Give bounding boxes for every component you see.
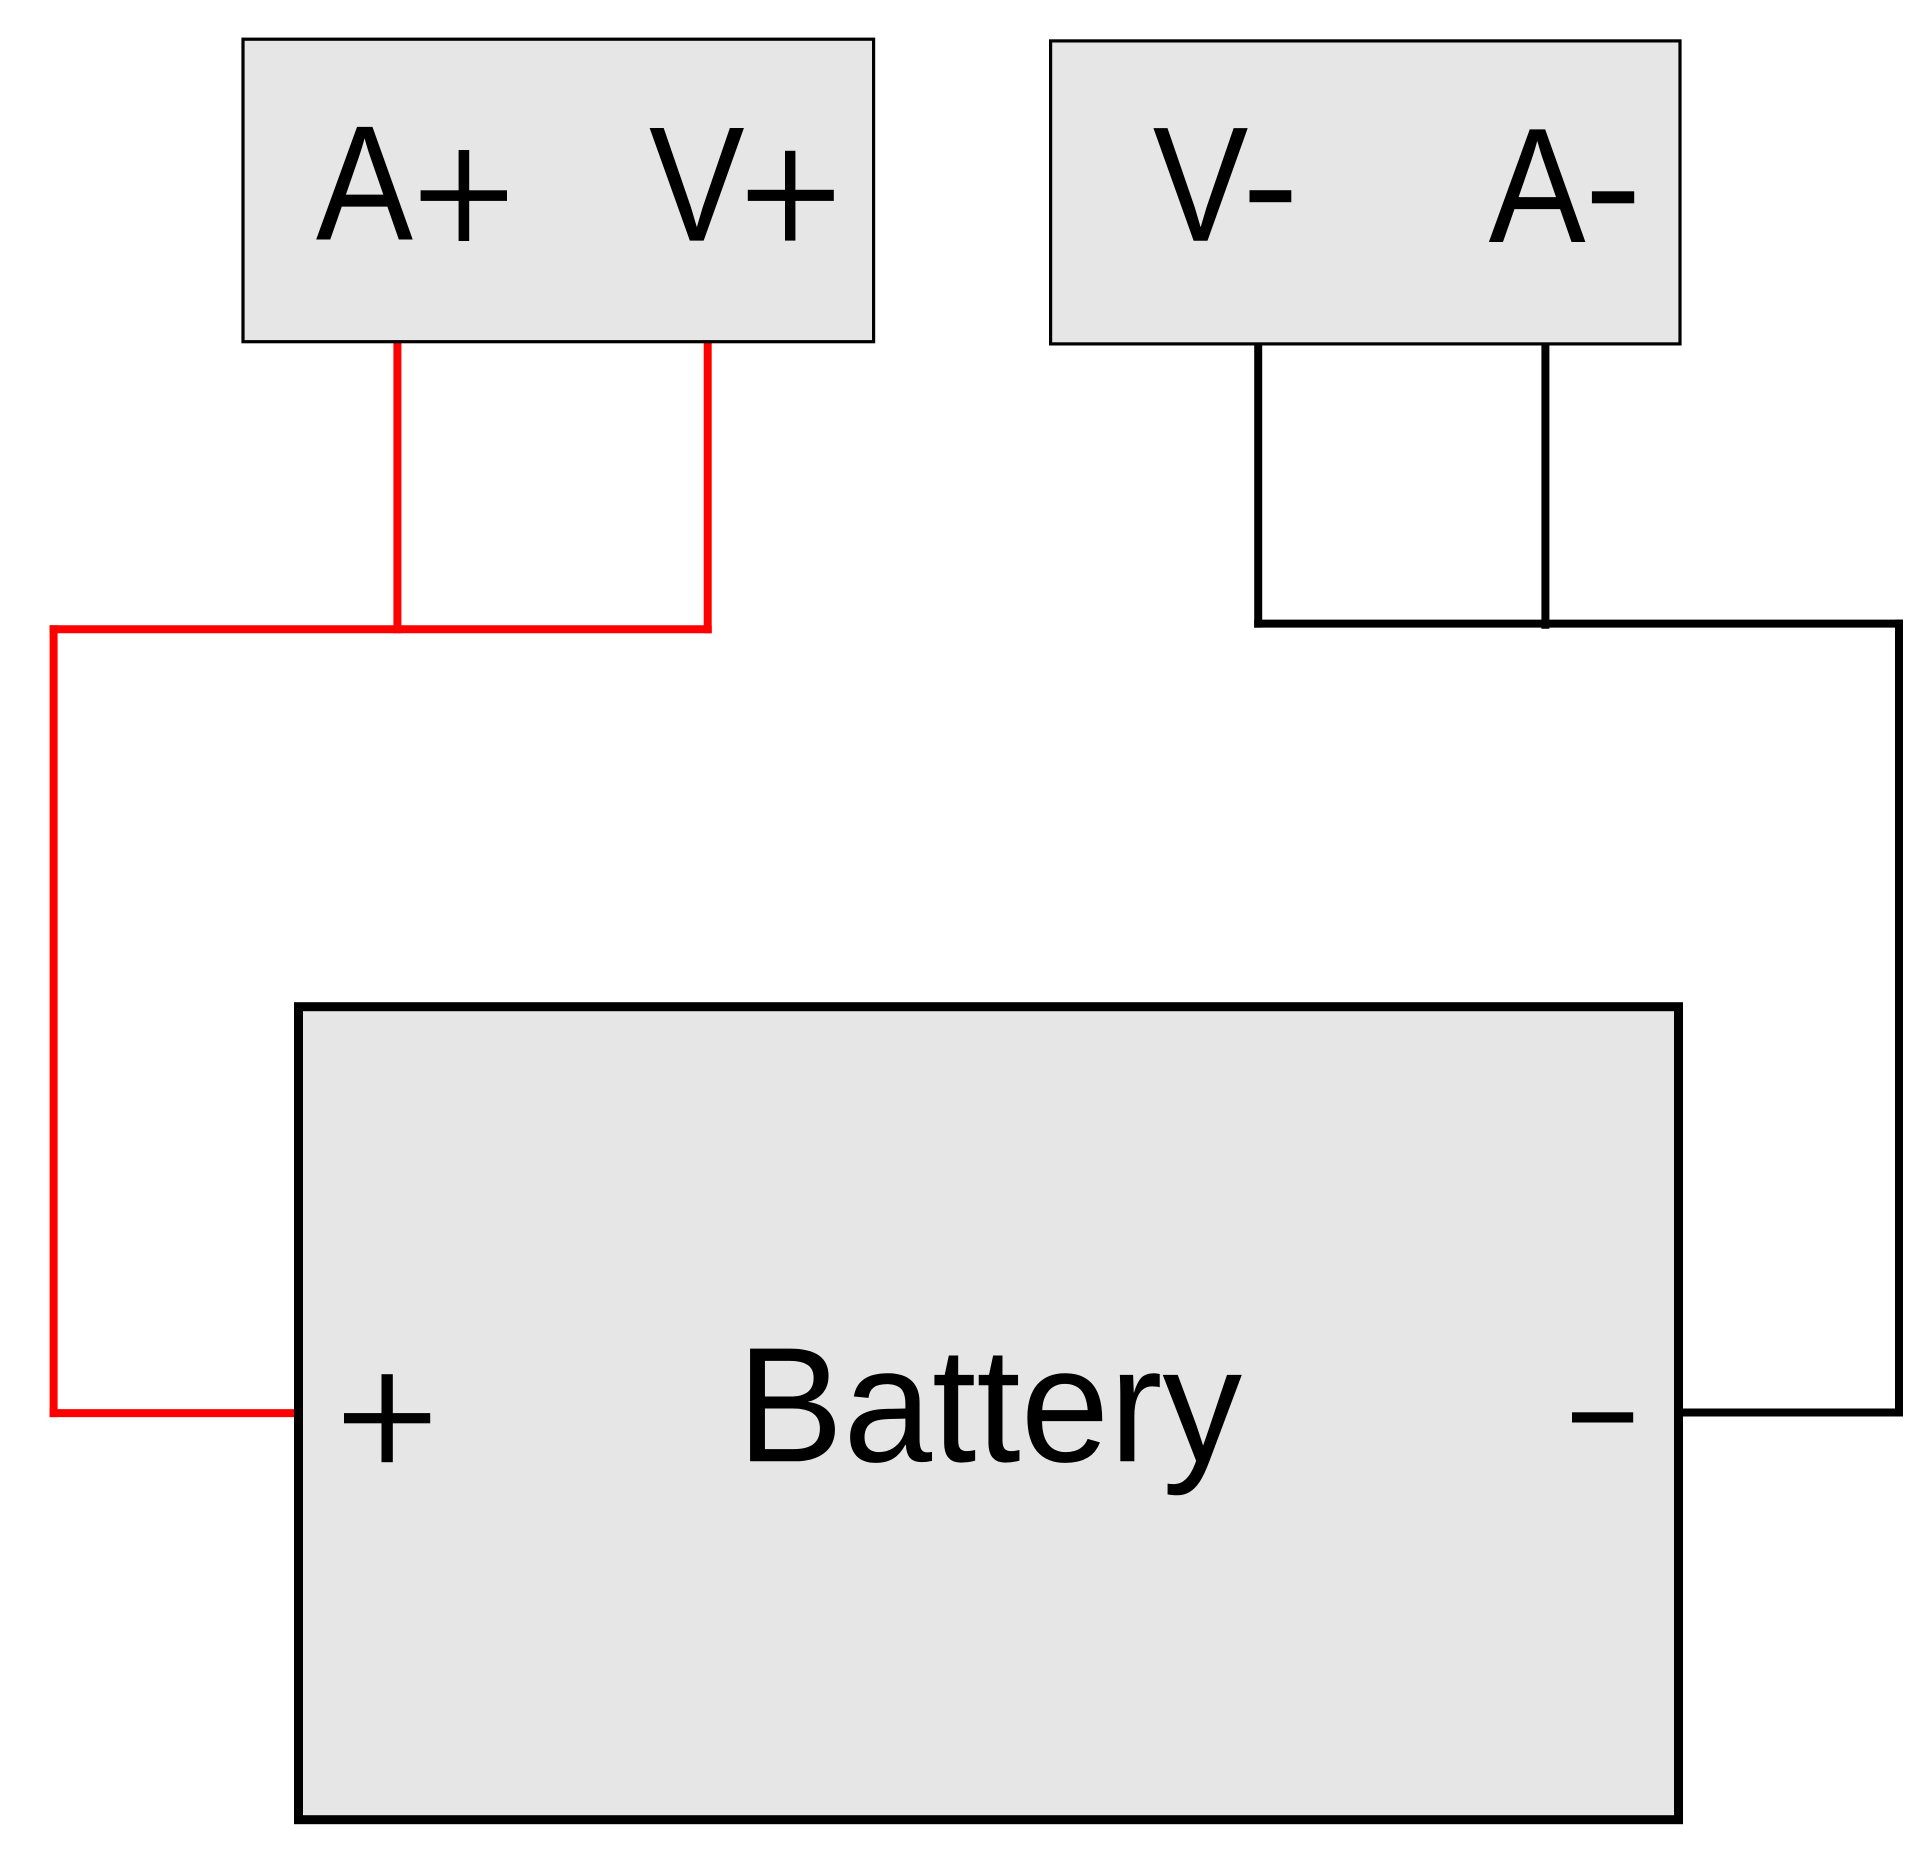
wire black right vertical drop [1895,620,1903,1417]
wire V- lead (black) [1254,343,1262,628]
wire red bus horizontal (A+/V+ junction) [50,625,712,633]
svg-text:V: V [649,93,745,276]
wire black bus horizontal (V-/A- junction) [1254,620,1903,628]
wire V+ lead (red) [704,341,712,633]
pin label V+ [649,93,834,276]
pin label A- [1489,94,1635,277]
wire A+ lead (red) [393,341,401,633]
svg-text:V: V [1153,93,1249,276]
terminal block TB1 (A+ V+) [243,39,874,342]
wire red left vertical drop [50,625,58,1417]
wire red to battery plus terminal [50,1409,303,1417]
battery minus terminal mark [1572,1412,1633,1422]
battery BT1 [299,1007,1679,1820]
battery label "Battery" [737,1314,1242,1496]
terminal block TB2 (V- A-) [1051,41,1680,344]
svg-text:Battery: Battery [737,1314,1242,1496]
battery plus terminal mark [344,1374,430,1462]
svg-text:A: A [1489,94,1586,277]
wire black to battery minus terminal [1674,1409,1903,1417]
svg-text:A: A [316,92,413,275]
pin label A+ [316,92,507,275]
pin label V- [1153,93,1292,276]
wire A- lead (black) [1541,343,1549,629]
